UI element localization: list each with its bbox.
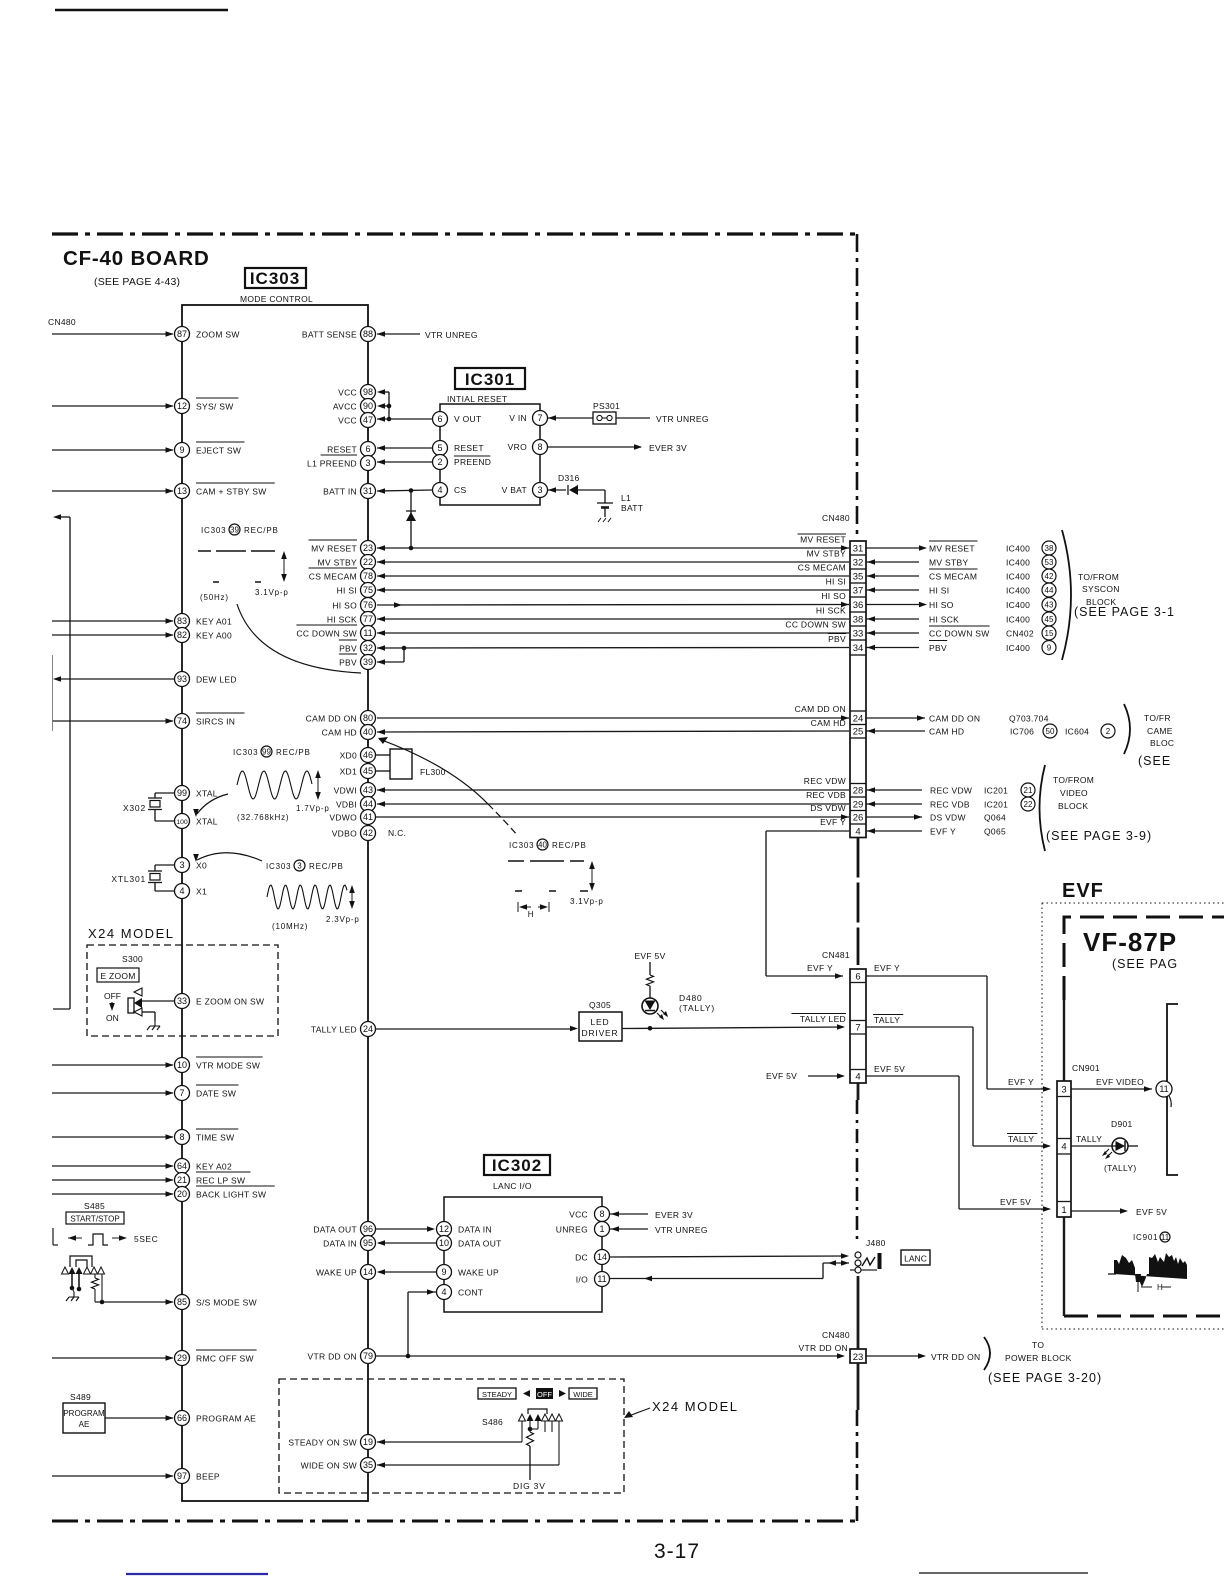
wire to IC303 pin 82	[52, 632, 174, 638]
svg-text:BATT: BATT	[621, 503, 643, 513]
net label HI SO left of CN480	[821, 591, 846, 601]
IC303 pin 29 RMC OFF SW	[175, 1350, 257, 1366]
svg-text:35: 35	[363, 1460, 373, 1470]
jack J480 contacts	[850, 1252, 882, 1273]
svg-text:D480: D480	[679, 993, 703, 1003]
svg-text:EVF VIDEO: EVF VIDEO	[1096, 1077, 1144, 1087]
svg-text:CAM DD ON: CAM DD ON	[306, 714, 357, 724]
CN481 cell 6	[855, 972, 860, 983]
svg-text:9: 9	[441, 1267, 446, 1277]
battery L1 BATT	[597, 490, 643, 522]
wire CAM HD CN480-25 to IC303-40	[377, 729, 849, 735]
svg-text:IC400: IC400	[1006, 615, 1030, 625]
IC303 pin 75 HI SI	[337, 583, 376, 598]
wire EVF Y right	[866, 828, 922, 834]
svg-text:STEADY ON SW: STEADY ON SW	[288, 1438, 357, 1448]
svg-text:Q065: Q065	[984, 827, 1006, 837]
svg-text:VTR UNREG: VTR UNREG	[655, 1225, 708, 1235]
CN480 cell 37	[853, 586, 864, 597]
IC303 pin 22 MV STBY	[318, 555, 376, 570]
IC303 pin 31 BATT IN	[323, 484, 375, 499]
net label VTR DD ON right	[931, 1352, 980, 1362]
net label VTR UNREG (IC302)	[655, 1225, 708, 1235]
svg-text:3-17: 3-17	[654, 1540, 700, 1563]
svg-text:HI SCK: HI SCK	[929, 615, 959, 625]
svg-text:S486: S486	[482, 1417, 503, 1427]
wire CS IC301-4 to BATT IN IC303-31	[377, 488, 433, 494]
IC303 pin 47 VCC	[338, 413, 375, 428]
resistor S486 pull	[527, 1432, 534, 1480]
svg-text:N.C.: N.C.	[388, 828, 406, 838]
EVF title	[1062, 880, 1104, 902]
CN901 cell 3	[1061, 1085, 1066, 1096]
IC301 reference label	[455, 368, 525, 389]
svg-text:IC400: IC400	[1006, 544, 1030, 554]
svg-text:88: 88	[363, 329, 373, 339]
svg-text:4: 4	[855, 827, 860, 838]
svg-text:VDWI: VDWI	[334, 786, 357, 796]
wire VRO to EVER 3V	[548, 444, 643, 450]
IC302 pin 10 DATA OUT	[437, 1236, 502, 1251]
IC303 pin 87 ZOOM SW	[175, 327, 240, 342]
svg-text:HI SCK: HI SCK	[816, 606, 846, 616]
svg-text:CN402: CN402	[1006, 629, 1034, 639]
annotation IC901 pin 11	[1133, 1232, 1170, 1242]
svg-text:7: 7	[855, 1023, 860, 1034]
switch S486 contacts	[519, 1409, 563, 1432]
IC303 pin 14 WAKE UP	[316, 1265, 376, 1280]
X24 MODEL dashed box (E ZOOM)	[87, 945, 278, 1036]
svg-text:40: 40	[363, 727, 373, 737]
IC303 pin 80 CAM DD ON	[306, 711, 376, 726]
svg-text:REC VDW: REC VDW	[804, 776, 846, 786]
svg-text:X24 MODEL: X24 MODEL	[88, 926, 174, 941]
wire DEW LED output	[53, 676, 175, 682]
svg-text:CN480: CN480	[822, 513, 850, 523]
IC303 pin 64 KEY A02	[175, 1159, 232, 1174]
svg-text:EVF 5V: EVF 5V	[1136, 1207, 1167, 1217]
annotation IC303 pin39 REC/PB waveform 50Hz	[198, 524, 289, 602]
timing pulse annotation 5SEC	[53, 1228, 158, 1245]
IC303 pin 33 E ZOOM ON SW	[175, 994, 265, 1009]
svg-text:46: 46	[363, 750, 373, 760]
svg-text:I/O: I/O	[576, 1275, 588, 1285]
svg-text:J480: J480	[866, 1238, 886, 1248]
svg-text:VTR UNREG: VTR UNREG	[425, 330, 478, 340]
svg-text:83: 83	[177, 616, 187, 626]
annotation IC303 pin99 REC/PB 32kHz wave	[233, 746, 330, 822]
svg-text:42: 42	[1045, 572, 1054, 581]
wire REC VDW right	[866, 787, 922, 793]
net label TALLY LED	[791, 1014, 846, 1025]
switch S489 label	[70, 1392, 91, 1402]
svg-text:8: 8	[537, 442, 542, 452]
wire S486 to pin 35 WIDE ON SW	[377, 1421, 559, 1468]
LED D480 TALLY	[642, 993, 715, 1020]
svg-text:DS VDW: DS VDW	[930, 813, 966, 823]
switch S485 ground branch	[66, 1274, 81, 1301]
net label HI SI left of CN480	[826, 577, 846, 587]
wire left faint stub	[52, 655, 54, 731]
svg-text:CS: CS	[454, 485, 466, 495]
svg-text:11: 11	[363, 628, 372, 638]
svg-text:H: H	[528, 910, 535, 919]
connector CN480 body	[850, 541, 866, 838]
svg-text:DATA IN: DATA IN	[323, 1239, 357, 1249]
svg-text:D316: D316	[558, 473, 580, 483]
svg-text:5: 5	[437, 443, 442, 453]
bracket power block	[984, 1337, 990, 1370]
net label CAM HD left of CN480	[811, 718, 846, 728]
wire MV RESET CN480 to IC400	[866, 545, 927, 551]
svg-text:3: 3	[1061, 1085, 1066, 1096]
svg-text:REC VDB: REC VDB	[930, 800, 970, 810]
IC302 pin 12 DATA IN	[437, 1222, 492, 1237]
svg-text:TIME SW: TIME SW	[196, 1133, 234, 1143]
svg-text:5SEC: 5SEC	[134, 1234, 158, 1244]
svg-text:14: 14	[597, 1252, 607, 1262]
net label CAM DD ON left of CN480	[795, 704, 846, 714]
svg-text:28: 28	[853, 786, 864, 797]
IC303 pin 88 BATT SENSE	[302, 327, 376, 342]
svg-text:2: 2	[437, 457, 442, 467]
svg-text:EJECT SW: EJECT SW	[196, 446, 241, 456]
svg-text:3: 3	[537, 485, 542, 495]
svg-text:ZOOM SW: ZOOM SW	[196, 330, 240, 340]
svg-text:IC400: IC400	[1006, 572, 1030, 582]
svg-text:V IN: V IN	[509, 413, 527, 423]
svg-text:AE: AE	[79, 1420, 90, 1429]
LED D901 TALLY	[1102, 1119, 1137, 1173]
filter FL300	[376, 749, 446, 779]
svg-text:EVF Y: EVF Y	[820, 817, 846, 827]
svg-text:CAM DD ON: CAM DD ON	[929, 714, 980, 724]
svg-text:LANC I/O: LANC I/O	[493, 1181, 532, 1191]
svg-text:RESET: RESET	[327, 445, 357, 455]
svg-text:14: 14	[363, 1267, 373, 1277]
svg-text:(32.768kHz): (32.768kHz)	[237, 813, 289, 822]
resistor S485 pull	[92, 1274, 99, 1302]
wire to IC303 pin 8	[52, 1134, 174, 1140]
annotation IC303 pin40 REC/PB H waveform	[508, 839, 604, 919]
svg-text:EVF 5V: EVF 5V	[634, 951, 665, 961]
svg-text:TO: TO	[1032, 1340, 1044, 1350]
svg-text:1: 1	[1061, 1205, 1066, 1216]
wire S300 to pin 33	[142, 1000, 175, 1002]
net label HI SCK right, IC400 pin 45	[929, 612, 1056, 626]
svg-text:7: 7	[537, 413, 542, 423]
svg-text:3: 3	[179, 860, 184, 870]
page top rule	[55, 9, 228, 12]
bracket video block	[1040, 765, 1046, 851]
pointer curve to pin 100	[193, 794, 228, 817]
wire to IC303 pin 9	[52, 447, 174, 453]
svg-text:31: 31	[853, 544, 864, 555]
title see page 4-43	[94, 276, 180, 288]
video waveform IC901	[1108, 1253, 1187, 1292]
wire to IC303 pin 7	[52, 1090, 174, 1096]
svg-text:PBV: PBV	[929, 643, 947, 653]
svg-text:2.3Vp-p: 2.3Vp-p	[326, 915, 360, 924]
svg-text:CC DOWN SW: CC DOWN SW	[785, 620, 846, 630]
net label DS VDW right Q064	[930, 813, 1006, 823]
CN480 cell 25	[853, 727, 864, 738]
wire DS VDW right	[866, 814, 922, 820]
IC303 pin 83 KEY A01	[175, 614, 232, 629]
svg-text:D901: D901	[1111, 1119, 1133, 1129]
wire to IC303 pin 12	[52, 403, 174, 409]
IC303 pin 21 REC LP SW	[175, 1172, 251, 1188]
svg-text:V BAT: V BAT	[502, 485, 527, 495]
net label DIG 3V	[513, 1481, 546, 1491]
svg-text:22: 22	[1024, 800, 1033, 809]
wire PBV CN480 to IC400	[866, 645, 919, 651]
IC303 pin 32 PBV	[339, 640, 376, 656]
svg-text:DS VDW: DS VDW	[810, 803, 846, 813]
svg-text:2: 2	[1106, 727, 1111, 736]
svg-text:4: 4	[437, 485, 442, 495]
svg-text:VIDEO: VIDEO	[1060, 788, 1088, 798]
bracket camera block	[1124, 704, 1130, 754]
wire TALLY LED pin24 to Q305	[376, 1026, 579, 1032]
svg-text:X0: X0	[196, 861, 207, 871]
IC303 pin 78 CS MECAM	[309, 568, 376, 584]
svg-text:21: 21	[177, 1175, 187, 1185]
svg-text:MV RESET: MV RESET	[311, 544, 357, 554]
wire V OUT to VCC 47	[377, 416, 433, 422]
svg-text:76: 76	[363, 600, 373, 610]
jack J480 label	[866, 1238, 886, 1248]
svg-text:4: 4	[179, 886, 184, 896]
svg-text:REC VDB: REC VDB	[806, 790, 846, 800]
IC303 pin 19 STEADY ON SW	[288, 1435, 375, 1450]
svg-text:19: 19	[363, 1437, 373, 1447]
IC303 pin 96 DATA OUT	[313, 1222, 375, 1237]
svg-text:RMC OFF SW: RMC OFF SW	[196, 1354, 254, 1364]
svg-text:79: 79	[363, 1351, 373, 1361]
wire CC DOWN SW CN480 to CN402	[866, 630, 919, 636]
svg-text:VRO: VRO	[508, 442, 527, 452]
connector CN481 label	[822, 950, 850, 960]
net label REC VDW right IC201 21	[930, 783, 1035, 797]
svg-text:24: 24	[853, 714, 864, 725]
svg-text:EVF Y: EVF Y	[807, 963, 833, 973]
wire S300 lower contact to ground	[142, 1012, 160, 1030]
CN481 cell 7	[855, 1023, 860, 1034]
net label EVF 5V in EVF	[1136, 1207, 1167, 1217]
svg-text:93: 93	[177, 674, 187, 684]
svg-text:SYSCON: SYSCON	[1082, 584, 1120, 594]
svg-text:MODE CONTROL: MODE CONTROL	[240, 294, 313, 304]
switch S489 PROGRAM AE box	[63, 1403, 105, 1433]
svg-text:BLOCK: BLOCK	[1058, 801, 1088, 811]
net label PBV right, IC400 pin 9	[929, 641, 1056, 655]
IC303 pin 76 HI SO	[332, 598, 375, 613]
svg-text:39: 39	[230, 525, 239, 534]
svg-text:PROGRAM: PROGRAM	[63, 1409, 105, 1418]
wire BATT SENSE to VTR UNREG	[377, 331, 420, 337]
svg-text:TALLY LED: TALLY LED	[311, 1025, 357, 1035]
net label CS MECAM right, IC400 pin 42	[929, 569, 1056, 583]
svg-text:33: 33	[853, 629, 864, 640]
wire CAM DD ON IC303-80 to CN480-24	[377, 715, 849, 721]
svg-text:CC DOWN SW: CC DOWN SW	[296, 629, 357, 639]
net label VTR UNREG (pin 88)	[425, 330, 478, 340]
svg-text:(50Hz): (50Hz)	[200, 593, 229, 602]
EVF dotted boundary	[1042, 903, 1224, 1329]
svg-text:MV STBY: MV STBY	[929, 558, 968, 568]
svg-text:74: 74	[177, 716, 187, 726]
svg-text:4: 4	[1061, 1142, 1066, 1153]
svg-text:VF-87P: VF-87P	[1083, 927, 1177, 957]
svg-text:CN480: CN480	[48, 317, 76, 327]
wire to IC303 pin 10	[52, 1062, 174, 1068]
svg-text:EVF 5V: EVF 5V	[766, 1071, 797, 1081]
svg-text:CAM HD: CAM HD	[811, 718, 846, 728]
svg-text:V OUT: V OUT	[454, 414, 481, 424]
net label HI SCK left of CN480	[816, 606, 846, 616]
svg-text:L1 PREEND: L1 PREEND	[307, 459, 357, 469]
svg-text:S300: S300	[122, 954, 143, 964]
svg-text:41: 41	[363, 812, 373, 822]
svg-text:10: 10	[177, 1060, 187, 1070]
svg-text:BATT IN: BATT IN	[323, 487, 357, 497]
wire MV RESET IC303 to CN480	[377, 545, 849, 551]
IC303 pin 74 SIRCS IN	[175, 713, 245, 729]
IC303 pin 23 MV RESET	[309, 540, 376, 556]
IC301 pin 3 V BAT	[502, 483, 548, 498]
svg-text:VTR DD ON: VTR DD ON	[931, 1352, 980, 1362]
switch S300 contacts	[128, 988, 142, 1016]
svg-text:CAM DD ON: CAM DD ON	[795, 704, 846, 714]
net label EVF Y left	[820, 817, 846, 827]
svg-text:TALLY: TALLY	[1076, 1134, 1102, 1144]
CN901 cell 4	[1061, 1142, 1066, 1153]
svg-text:24: 24	[363, 1024, 373, 1034]
CN480 cell 4	[855, 827, 860, 838]
IC302 function label LANC I/O	[493, 1181, 532, 1191]
svg-text:VDBO: VDBO	[332, 829, 357, 839]
wire left loop with arrow	[53, 514, 70, 1009]
IC303 pin 20 BACK LIGHT SW	[175, 1186, 275, 1202]
svg-text:E ZOOM ON SW: E ZOOM ON SW	[196, 997, 264, 1007]
wire HI SI IC303 to CN480	[377, 587, 849, 593]
pointer curve to pin 39	[237, 604, 361, 673]
crystal X302	[123, 793, 175, 821]
switch S486 key labels STEADY OFF WIDE	[478, 1388, 597, 1399]
svg-text:IC201: IC201	[984, 800, 1008, 810]
X24 MODEL dashed box (steady/wide)	[279, 1379, 624, 1493]
svg-text:9: 9	[179, 445, 184, 455]
svg-text:EVF 5V: EVF 5V	[1000, 1197, 1031, 1207]
IC303 pin 6 RESET	[327, 442, 375, 457]
wire REC VDB IC303-44 to CN480-29	[377, 801, 849, 807]
CN480 cell 24	[853, 714, 864, 725]
connector CN901 body	[1057, 1081, 1071, 1217]
svg-text:PBV: PBV	[339, 658, 357, 668]
svg-text:IC302: IC302	[492, 1156, 542, 1175]
svg-text:9: 9	[1047, 643, 1052, 652]
svg-text:CONT: CONT	[458, 1288, 483, 1298]
wire V BAT to D316	[548, 487, 606, 493]
wire MV STBY IC303 to CN480	[377, 559, 849, 565]
svg-text:DATA OUT: DATA OUT	[458, 1239, 502, 1249]
svg-text:CN481: CN481	[822, 950, 850, 960]
svg-text:43: 43	[363, 785, 373, 795]
wire to IC303 pin 74	[52, 718, 174, 724]
svg-text:(SEE: (SEE	[1138, 754, 1171, 768]
wire MV STBY CN480 to IC400	[866, 559, 919, 565]
svg-text:50: 50	[1046, 727, 1055, 736]
svg-text:MV STBY: MV STBY	[807, 549, 846, 559]
connector spine at cell 23	[857, 1305, 860, 1410]
IC302 pin 9 WAKE UP	[437, 1265, 500, 1280]
svg-text:11: 11	[1161, 1233, 1170, 1242]
svg-text:(SEE PAGE 3-20): (SEE PAGE 3-20)	[988, 1371, 1102, 1385]
wire to IC303 pin 97	[52, 1473, 174, 1479]
wire IC302-10 to DATA IN 95	[377, 1240, 437, 1246]
wire UNREG to VTR UNREG	[610, 1226, 649, 1232]
wire V IN to PS301	[548, 415, 594, 421]
svg-text:DC: DC	[575, 1253, 588, 1263]
CF-40 board boundary right	[857, 234, 858, 1521]
svg-text:97: 97	[177, 1471, 187, 1481]
switch S485 contacts	[62, 1256, 105, 1274]
IC303 pin 46 XD0	[340, 748, 376, 763]
svg-text:KEY A01: KEY A01	[196, 617, 232, 627]
svg-text:23: 23	[853, 1352, 864, 1363]
svg-text:7: 7	[179, 1088, 184, 1098]
svg-text:53: 53	[1045, 558, 1054, 567]
svg-text:IC303: IC303	[233, 748, 258, 757]
svg-text:REC/PB: REC/PB	[276, 748, 311, 757]
svg-text:PROGRAM AE: PROGRAM AE	[196, 1414, 256, 1424]
svg-text:4: 4	[855, 1072, 860, 1083]
CN480 cell 33	[853, 629, 864, 640]
wire HI SO IC303 to CN480	[377, 602, 849, 608]
IC303 pin 11 CC DOWN SW	[296, 625, 375, 641]
svg-text:CAM HD: CAM HD	[322, 728, 357, 738]
svg-text:29: 29	[177, 1353, 187, 1363]
CN480 cell 35	[853, 572, 864, 583]
svg-text:IC400: IC400	[1006, 600, 1030, 610]
switch S486 label	[482, 1417, 503, 1427]
svg-text:IC400: IC400	[1006, 558, 1030, 568]
svg-text:12: 12	[177, 401, 187, 411]
wire S486 to pin 19 STEADY ON SW	[377, 1421, 522, 1445]
net label PBV left of CN480	[828, 634, 846, 645]
svg-text:IC400: IC400	[1006, 643, 1030, 653]
IC301 pin 7 V IN	[509, 411, 547, 426]
svg-text:MV RESET: MV RESET	[800, 535, 846, 545]
IC303 pin 77 HI SCK	[327, 612, 376, 627]
svg-text:29: 29	[853, 800, 864, 811]
svg-text:42: 42	[363, 828, 373, 838]
net label EVF 5V before CN901	[1000, 1197, 1031, 1207]
wire CAM DD ON right of CN480	[866, 715, 925, 721]
CN480 cell 29	[853, 800, 864, 811]
LANC label box	[901, 1250, 930, 1265]
note TO POWER BLOCK	[988, 1340, 1102, 1385]
svg-text:HI SO: HI SO	[929, 600, 954, 610]
IC303 pin 24 TALLY LED	[311, 1022, 376, 1037]
IC303 pin 3 X0	[175, 858, 208, 873]
net label MV RESET left of CN480	[798, 534, 846, 545]
wire I/O to J480 ring	[610, 1260, 850, 1281]
svg-text:SIRCS IN: SIRCS IN	[196, 717, 235, 727]
resistor tally	[647, 975, 654, 998]
bracket syscon block	[1062, 530, 1071, 660]
